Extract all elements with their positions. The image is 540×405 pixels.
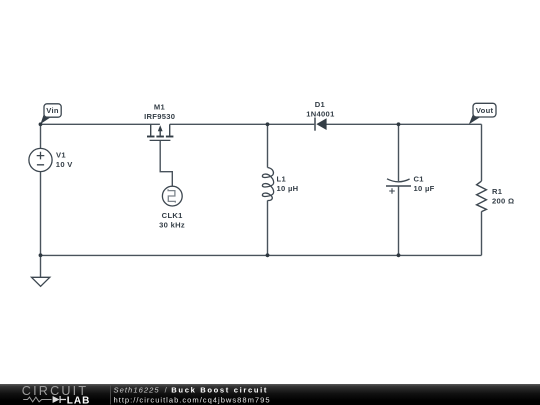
svg-text:Seth16225: Seth16225: [114, 385, 160, 394]
wire inductor branch top: [267, 124, 269, 167]
svg-text:200 Ω: 200 Ω: [492, 197, 514, 206]
wire inductor branch bottom: [267, 201, 269, 256]
label L1: [277, 174, 287, 183]
svg-text:Vout: Vout: [476, 106, 494, 115]
logo LAB text: [67, 396, 91, 405]
value 200 Ω: [492, 197, 514, 206]
svg-text:30 kHz: 30 kHz: [159, 221, 185, 230]
wire M1 gate to CLK1: [160, 141, 172, 186]
footer url: [114, 395, 271, 404]
node L1 top junction: [266, 122, 270, 126]
svg-text:Vin: Vin: [46, 106, 59, 115]
value 10 V: [56, 160, 73, 169]
node ground junction: [39, 253, 43, 257]
node C1 top junction: [397, 122, 401, 126]
wire top-left rail Vin to M1: [41, 123, 160, 125]
wire bottom rail: [41, 254, 482, 256]
value 1N4001: [306, 109, 335, 118]
wire top-right rail D1 to Vout corner: [327, 123, 482, 125]
ground: [32, 277, 50, 286]
svg-text:CLK1: CLK1: [162, 211, 184, 220]
diode D1: [315, 118, 327, 131]
label C1: [414, 175, 425, 184]
wire left rail upper (Vin node to V1): [40, 124, 42, 148]
inductor L1: [262, 168, 273, 201]
voltage source V1: [29, 148, 52, 171]
value 10 µF: [414, 184, 435, 193]
svg-text:1N4001: 1N4001: [306, 109, 335, 118]
value 10 µH: [277, 184, 299, 193]
logo CIRCUIT text: [22, 384, 88, 398]
footer author / title: [114, 385, 269, 394]
wire ground stub: [40, 255, 42, 277]
drain stub and contact bar: [169, 124, 171, 135]
wire capacitor branch top: [398, 124, 400, 181]
wire resistor branch top: [481, 124, 483, 181]
svg-text:LAB: LAB: [67, 396, 91, 405]
value 30 kHz: [159, 221, 185, 230]
node C1 bottom junction: [397, 253, 401, 257]
clock source CLK1: [162, 186, 182, 206]
svg-text:http://circuitlab.com/cq4jbws8: http://circuitlab.com/cq4jbws88m795: [114, 395, 271, 404]
value IRF9530: [144, 112, 175, 121]
svg-text:10 µH: 10 µH: [277, 184, 299, 193]
resistor R1: [477, 181, 487, 212]
logo resistor-diode glyph: [23, 396, 66, 403]
footer bar: [0, 384, 540, 405]
gate line: [150, 139, 171, 141]
label CLK1: [162, 211, 184, 220]
svg-text:IRF9530: IRF9530: [144, 112, 175, 121]
wire resistor branch bottom: [481, 212, 483, 256]
label R1: [492, 187, 503, 196]
svg-text:10 V: 10 V: [56, 160, 73, 169]
capacitor C1 (polarized): [386, 179, 411, 194]
svg-text:R1: R1: [492, 187, 503, 196]
svg-text:L1: L1: [277, 174, 287, 183]
svg-text:10 µF: 10 µF: [414, 184, 435, 193]
wire top-middle rail M1 to D1: [170, 123, 315, 125]
flag Vout: [469, 103, 496, 124]
node L1 bottom junction: [266, 253, 270, 257]
svg-text:V1: V1: [56, 151, 66, 160]
source stub and contact bar: [150, 124, 152, 135]
svg-text:C1: C1: [414, 175, 425, 184]
svg-text:M1: M1: [154, 102, 166, 111]
wire capacitor branch bottom: [398, 186, 400, 255]
svg-text:Buck Boost circuit: Buck Boost circuit: [171, 385, 268, 394]
svg-text:D1: D1: [315, 100, 326, 109]
footer divider: [110, 385, 112, 405]
label V1: [56, 151, 66, 160]
node Vin junction: [39, 122, 43, 126]
label D1: [315, 100, 326, 109]
body arrow and contact bar: [158, 125, 163, 131]
label M1: [154, 102, 166, 111]
flag Vin: [41, 104, 62, 124]
wire left rail lower (V1 to bottom rail): [40, 172, 42, 256]
transistor M1 (PMOS): [147, 124, 173, 140]
